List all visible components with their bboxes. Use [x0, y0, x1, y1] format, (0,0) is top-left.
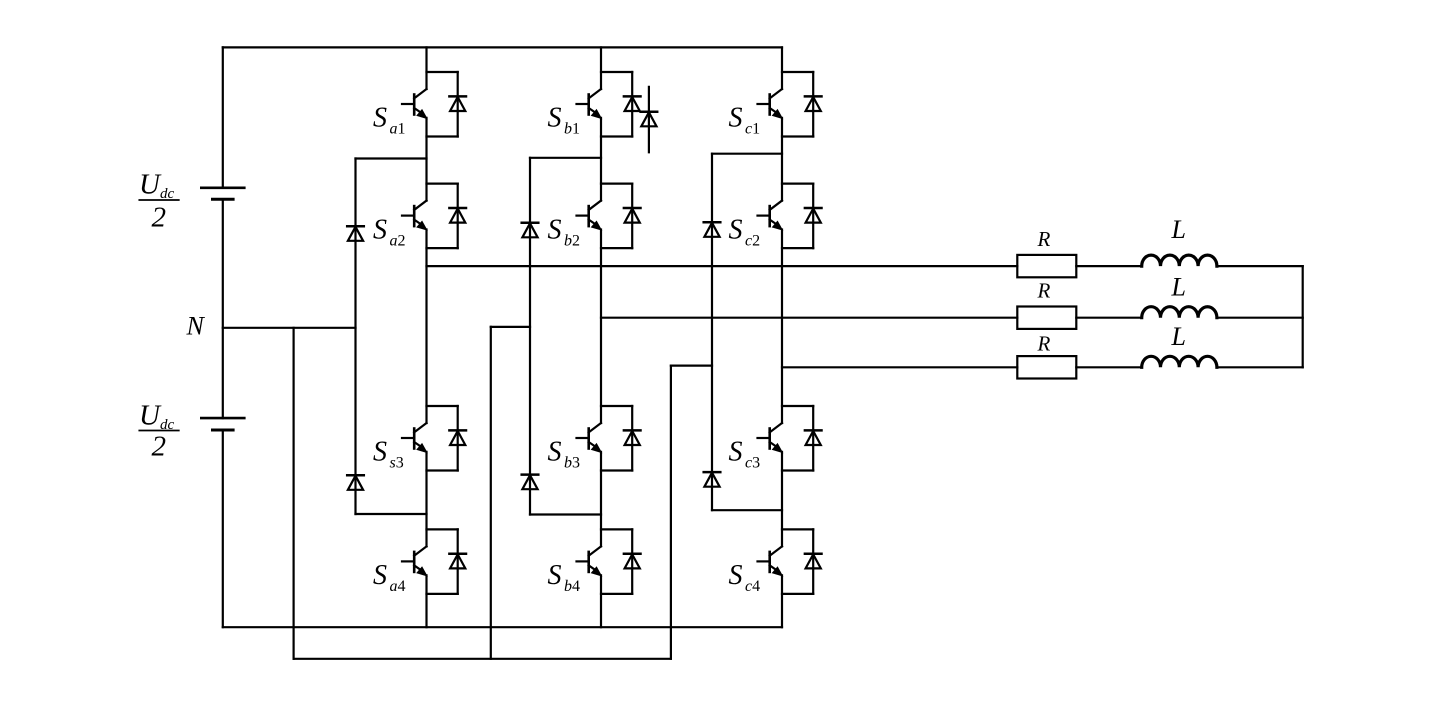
- wire: L to star point (phase c): [1217, 366, 1303, 368]
- wire: neutral bottom return (to phase b and c clamp midpoints): [294, 658, 671, 660]
- svg-text:R: R: [1037, 227, 1051, 251]
- svg-text:N: N: [186, 312, 206, 341]
- wire: phase b trunk segments: [600, 47, 602, 627]
- wire: phase c lower clamp rail: [712, 509, 782, 511]
- wire: left DC bus upper segment: [222, 47, 224, 187]
- transistor Sb2: [577, 184, 633, 249]
- svg-text:2: 2: [152, 431, 167, 463]
- transistor Sa4: [402, 529, 458, 594]
- wire: neutral N horizontal (bus to phase-a clamp midpoint): [223, 327, 356, 329]
- wire: phase b clamp branch vertical: [529, 158, 531, 515]
- clamp diode Da2 (lower): [347, 475, 364, 490]
- svg-text:R: R: [1037, 278, 1051, 302]
- wire: phase a clamp branch vertical: [354, 159, 356, 515]
- transistor Sc3: [758, 406, 814, 471]
- transistor Ss3: [402, 406, 458, 471]
- wire: phase-c clamp midpoint jog horizontal: [671, 365, 712, 367]
- wire: phase b lower clamp rail: [530, 513, 601, 515]
- wire: L to star point (phase a): [1217, 265, 1303, 267]
- wire: neutral vertical drop from N: [293, 328, 295, 659]
- wire: phase-b clamp midpoint vertical drop: [490, 327, 492, 659]
- anti-parallel diode of Sb2: [624, 208, 641, 223]
- wire: phase c output to load: [782, 366, 1017, 368]
- svg-text:L: L: [1171, 273, 1186, 302]
- transistor Sa1: [402, 72, 458, 137]
- anti-parallel diode of Sb4: [624, 554, 641, 569]
- transistor Sa2: [402, 184, 458, 249]
- wire: R to L (phase c): [1076, 366, 1141, 368]
- clamp diode Db1 (upper): [522, 223, 539, 238]
- clamp diode Dc2 (lower): [704, 472, 721, 487]
- wire: phase a trunk segments: [425, 47, 427, 627]
- resistor R (phase a): [1017, 255, 1076, 277]
- inductor L (phase c): [1142, 356, 1217, 367]
- transistor Sb1: [577, 72, 633, 137]
- wire: top DC bus: [223, 46, 782, 48]
- wire: phase a lower clamp rail: [356, 513, 427, 515]
- wire: phase-b clamp midpoint jog horizontal: [491, 326, 530, 328]
- anti-parallel diode of Sb3: [624, 430, 641, 445]
- wire: phase c upper clamp rail: [712, 153, 782, 155]
- clamp diode Da1 (upper): [347, 226, 364, 241]
- wire: left DC bus middle segment (battery B1 to battery B2): [222, 199, 224, 418]
- label Udc/2 (upper): [139, 169, 179, 234]
- label Udc/2 (lower): [139, 400, 179, 463]
- clamp diode Db2 (lower): [522, 475, 539, 490]
- wire: left DC bus lower segment: [222, 430, 224, 627]
- stray series diode segment next to Sb1: [641, 87, 658, 153]
- wire: R to L (phase b): [1076, 317, 1141, 319]
- resistor R (phase c): [1017, 356, 1076, 378]
- transistor Sc2: [758, 184, 814, 249]
- anti-parallel diode of Sa2: [449, 208, 466, 223]
- battery B2 (lower Udc/2 source): [201, 418, 244, 430]
- anti-parallel diode of Ss3: [449, 430, 466, 445]
- wire: phase c trunk segments: [781, 47, 783, 627]
- wire: L to star point (phase b): [1217, 317, 1303, 319]
- anti-parallel diode of Sc3: [805, 430, 822, 445]
- svg-text:L: L: [1171, 215, 1186, 244]
- transistor Sb3: [577, 406, 633, 471]
- anti-parallel diode of Sa4: [449, 554, 466, 569]
- anti-parallel diode of Sb1: [624, 96, 641, 111]
- svg-text:L: L: [1171, 322, 1186, 351]
- battery B1 (upper Udc/2 source): [201, 188, 244, 200]
- wire: load star point vertical: [1302, 266, 1304, 367]
- transistor Sb4: [577, 529, 633, 594]
- resistor R (phase b): [1017, 307, 1076, 329]
- wire: phase c clamp branch vertical: [711, 154, 713, 511]
- inductor L (phase a): [1142, 255, 1217, 266]
- clamp diode Dc1 (upper): [704, 222, 721, 237]
- anti-parallel diode of Sa1: [449, 96, 466, 111]
- wire: phase a output to load: [427, 265, 1018, 267]
- wire: phase b upper clamp rail: [530, 157, 601, 159]
- transistor Sc1: [758, 72, 814, 137]
- wire: R to L (phase a): [1076, 265, 1141, 267]
- anti-parallel diode of Sc1: [805, 96, 822, 111]
- svg-text:R: R: [1037, 331, 1051, 355]
- anti-parallel diode of Sc4: [805, 554, 822, 569]
- wire: bottom DC bus: [223, 626, 782, 628]
- svg-text:2: 2: [152, 202, 167, 234]
- anti-parallel diode of Sc2: [805, 208, 822, 223]
- inductor L (phase b): [1142, 307, 1217, 318]
- wire: phase a upper clamp rail: [356, 157, 427, 159]
- wire: phase-c clamp midpoint vertical drop: [670, 366, 672, 659]
- wire: phase b output to load: [601, 317, 1017, 319]
- transistor Sc4: [758, 529, 814, 594]
